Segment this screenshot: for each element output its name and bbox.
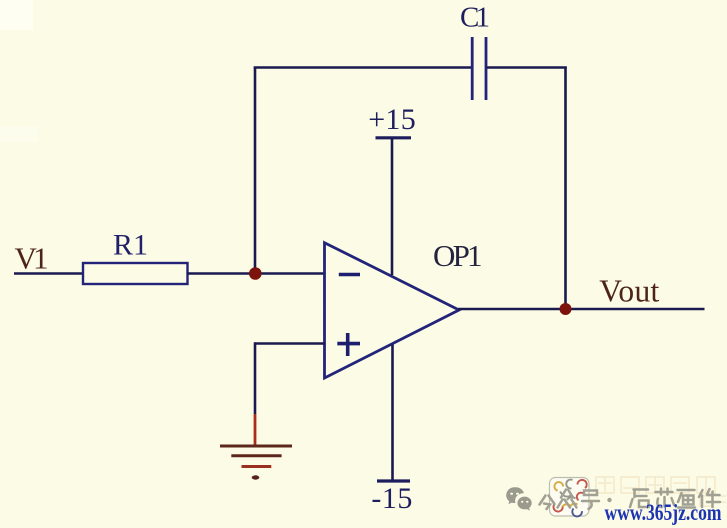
xin [656,489,675,508]
hao [582,491,599,510]
qi [630,490,649,508]
wire feedback top horizontal left of C1 [254,66,471,69]
jian [699,489,720,507]
wire resistor to op-amp inverting input [187,272,326,275]
capacitor C1 [460,2,490,100]
power +15 [368,103,416,275]
wire feedback right vertical [564,67,567,310]
wire input V1 to resistor [14,272,84,275]
wire non-inverting input horizontal [255,342,326,345]
gong [540,496,555,510]
svg-text:www.365jz.com: www.365jz.com [605,500,722,525]
svg-text:R1: R1 [113,229,148,262]
svg-text:+15: +15 [368,103,416,136]
svg-text:OP1: OP1 [433,238,483,273]
watermark faint orange text [596,477,726,506]
resistor R1 [83,229,188,284]
dot [607,498,611,502]
wire output [458,308,705,311]
svg-text:Vout: Vout [599,274,659,309]
watermark gray chinese text [540,489,721,510]
op-amp OP1 [325,238,483,378]
wire non-inverting input vertical to ground [254,342,257,414]
svg-text:-15: -15 [371,482,412,515]
wire feedback top horizontal right of C1 [487,66,567,69]
svg-text:V1: V1 [15,241,49,276]
watermark knot logo [550,478,590,517]
zhong [558,490,577,508]
node A junction at inverting input [249,267,262,280]
net label V1 [15,241,49,276]
watermark www.365jz.com [605,500,722,525]
watermark wechat icon [506,487,531,510]
net label Vout [599,274,659,309]
wire feedback left vertical [254,67,257,274]
ground [220,414,292,480]
power -15 [371,345,412,516]
ying [678,490,696,508]
node B junction at output [560,303,572,315]
svg-text:C1: C1 [460,2,490,34]
